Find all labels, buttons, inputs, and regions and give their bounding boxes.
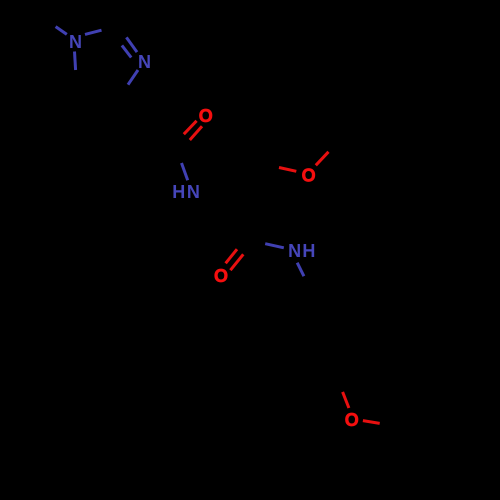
bond CH3-N1 (N half) — [56, 27, 67, 35]
bond C2=N3 inner line (N half) — [122, 45, 131, 57]
bond Caryl-O4 (O half) — [343, 392, 349, 408]
bond C6=O1 inner line (O half) — [190, 126, 202, 140]
bond O4-C (O half) — [363, 421, 380, 424]
bond O2-CH2Ph (O half) — [316, 152, 329, 166]
bond C2=N3 outer line (N half) — [126, 37, 137, 52]
svg-text:O: O — [302, 166, 316, 186]
svg-text:N: N — [187, 182, 200, 202]
bond C6=O1 outer line (O half) — [184, 121, 197, 134]
bond C8=O3 inner line (O half) — [230, 254, 243, 270]
bond C8-N5 (N half) — [265, 244, 284, 248]
bond CH2-O2 (O half) — [279, 168, 296, 172]
svg-text:H: H — [172, 182, 185, 202]
bond N1-C2 (N half) — [85, 30, 102, 34]
bond N1-C5 (N half) — [75, 52, 76, 71]
svg-text:N: N — [288, 241, 301, 261]
svg-text:O: O — [214, 266, 228, 286]
bond C8=O3 outer line (O half) — [226, 249, 237, 263]
svg-text:N: N — [138, 52, 151, 72]
svg-text:O: O — [199, 106, 213, 126]
svg-text:N: N — [69, 32, 82, 52]
svg-text:O: O — [345, 410, 359, 430]
bond N3-C4 (N half) — [128, 70, 138, 85]
bond N5-Caryl (N half) — [297, 263, 304, 277]
svg-text:H: H — [302, 241, 315, 261]
bond C6-N4 (N half) — [182, 163, 188, 180]
